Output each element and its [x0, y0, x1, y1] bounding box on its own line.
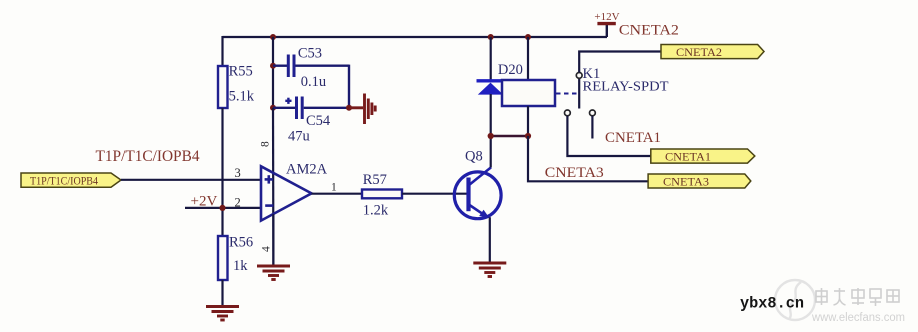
node junction bar left — [488, 133, 494, 139]
svg-text:C54: C54 — [306, 113, 331, 129]
port flag T1P/T1C/IOPB4 — [21, 173, 121, 187]
pin number 4 rotated — [261, 246, 273, 252]
pin number 8 rotated — [260, 141, 272, 147]
wire +2V to op-amp pin 2 — [185, 207, 261, 209]
relay contact NC left — [565, 110, 571, 116]
svg-text:ybx8.cn: ybx8.cn — [740, 295, 804, 313]
svg-text:4: 4 — [261, 246, 273, 252]
diode D20 — [477, 62, 523, 95]
svg-text:D20: D20 — [498, 62, 523, 78]
relay switch arm — [578, 79, 580, 109]
op-amp U AM2A — [261, 161, 328, 220]
wire op-amp output — [312, 193, 363, 195]
svg-text:5.1k: 5.1k — [229, 89, 255, 105]
wire R56 bottom — [221, 280, 223, 305]
svg-text:R55: R55 — [229, 63, 253, 79]
wire junction bar — [491, 135, 528, 138]
svg-text:T1P/T1C/IOPB4: T1P/T1C/IOPB4 — [30, 173, 98, 187]
resistor R55 — [218, 63, 255, 108]
svg-text:C53: C53 — [298, 46, 322, 62]
net label T1P/T1C/IOPB4 — [96, 148, 200, 165]
resistor R57 — [362, 172, 402, 218]
port flag CNETA2 — [661, 45, 764, 60]
net label CNETA2 — [619, 23, 679, 39]
capacitor C53 — [273, 46, 349, 90]
wire R55 bottom to R56 top — [221, 108, 223, 236]
resistor R56 — [218, 234, 253, 280]
pin number 1 — [331, 181, 337, 193]
wire coil top — [527, 37, 529, 80]
transistor Q8 — [454, 149, 501, 219]
svg-text:1: 1 — [331, 181, 337, 193]
net label CNETA1 — [605, 130, 661, 146]
port flag CNETA1 — [651, 149, 755, 164]
pin number 3 — [235, 166, 241, 180]
svg-text:CNETA3: CNETA3 — [663, 174, 709, 188]
wire CNETA2 run — [579, 52, 661, 73]
net label +2V — [191, 193, 218, 209]
wire coil bottom — [527, 106, 529, 136]
wire D20 cathode up — [490, 37, 492, 80]
svg-text:3: 3 — [235, 166, 241, 180]
relay K1 coil — [502, 66, 669, 106]
relay contact NO right — [590, 110, 596, 116]
svg-text:2: 2 — [235, 195, 241, 209]
wire op-amp pin 4 — [272, 214, 274, 265]
svg-text:www.elecfans.com: www.elecfans.com — [811, 312, 905, 324]
node junction rail / relay coil — [525, 34, 531, 40]
relay contact common — [576, 73, 582, 79]
wire input to op-amp pin 3 — [121, 179, 261, 181]
svg-text:CNETA1: CNETA1 — [665, 150, 711, 164]
wire R57 to Q8 base — [402, 193, 467, 195]
power +12V — [594, 11, 619, 37]
wire caps right loop — [348, 65, 350, 108]
ground Q8 emitter — [473, 263, 506, 277]
net label CNETA3 — [545, 165, 604, 181]
node junction caps right — [346, 105, 352, 111]
node junction top rail / C53 branch — [270, 34, 276, 40]
svg-text:R56: R56 — [229, 234, 253, 250]
node junction C53 — [270, 63, 276, 69]
svg-text:0.1u: 0.1u — [301, 74, 326, 90]
node junction C54 — [270, 105, 276, 111]
wire R55 top pin — [221, 36, 223, 66]
svg-text:CNETA3: CNETA3 — [545, 165, 604, 181]
svg-text:T1P/T1C/IOPB4: T1P/T1C/IOPB4 — [96, 148, 200, 165]
ground sideways for caps — [349, 94, 375, 125]
ground op-amp pin4 — [257, 266, 290, 280]
wire top rail — [223, 36, 608, 38]
node junction bar right — [525, 133, 531, 139]
wire CNETA3 run — [528, 136, 648, 181]
wire Q8 emitter down — [489, 217, 491, 261]
svg-text:8: 8 — [260, 141, 272, 147]
watermark logo circle — [775, 280, 815, 320]
svg-text:+12V: +12V — [594, 11, 619, 23]
relay dashed link — [556, 93, 577, 95]
svg-text:CNETA1: CNETA1 — [605, 130, 661, 146]
svg-text:1k: 1k — [233, 258, 248, 274]
svg-text:47u: 47u — [288, 129, 310, 145]
watermark ybx8.cn — [740, 295, 804, 313]
wire op-amp pin 8 — [272, 108, 275, 265]
wire CNETA1 run — [567, 116, 650, 156]
capacitor C54 polarized — [273, 97, 349, 145]
svg-text:AM2A: AM2A — [286, 161, 328, 177]
wire D20 anode down — [490, 94, 492, 136]
svg-text:RELAY-SPDT: RELAY-SPDT — [583, 79, 670, 94]
svg-text:R57: R57 — [363, 172, 387, 188]
svg-text:Q8: Q8 — [465, 149, 483, 165]
watermark hanzi strokes — [816, 288, 899, 306]
svg-text:CNETA2: CNETA2 — [619, 23, 679, 39]
watermark elecfans url — [811, 312, 905, 324]
port flag CNETA3 — [648, 174, 751, 188]
wire C branch vertical — [272, 37, 274, 108]
node junction divider / pin2 — [219, 205, 225, 211]
node junction rail / D20 — [488, 34, 494, 40]
wire NO stub — [591, 116, 593, 139]
svg-text:CNETA2: CNETA2 — [676, 45, 722, 59]
svg-text:1.2k: 1.2k — [363, 202, 389, 218]
wire Q8 collector up — [490, 136, 492, 168]
pin number 2 — [235, 195, 241, 209]
ground below R56 — [206, 307, 239, 321]
